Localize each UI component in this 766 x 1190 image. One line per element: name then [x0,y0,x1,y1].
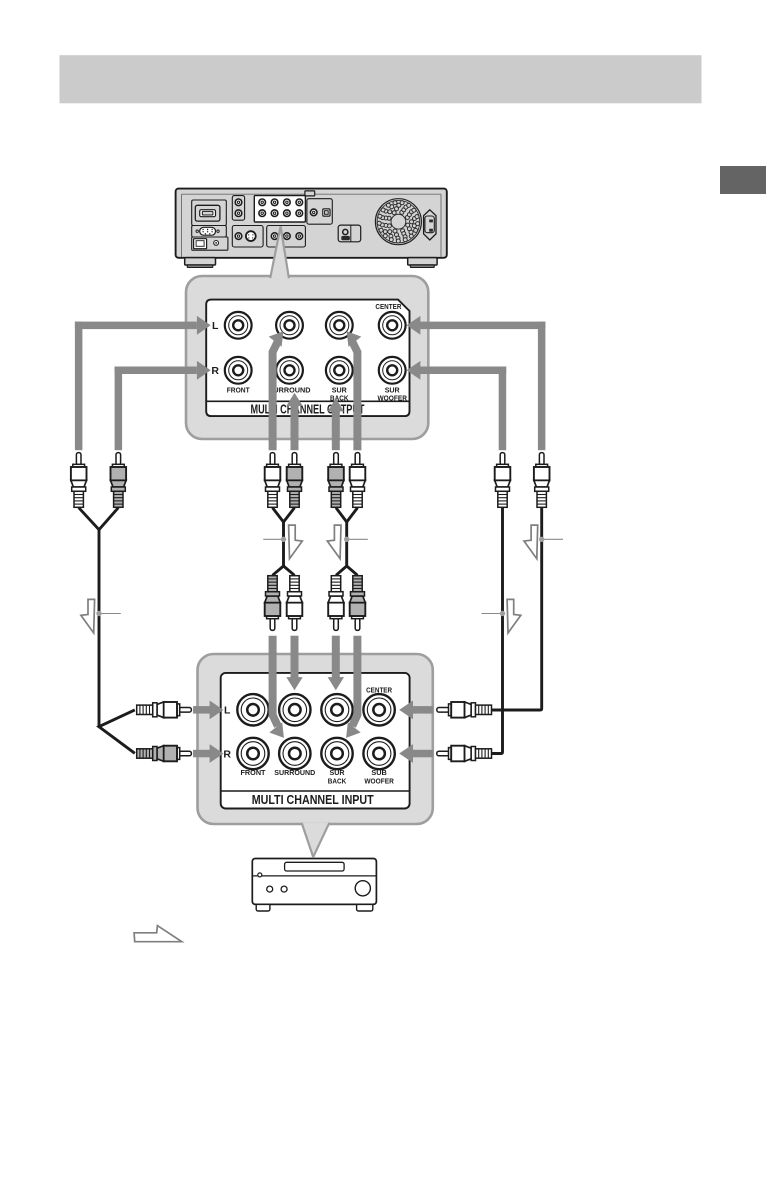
svg-text:FRONT: FRONT [227,386,250,395]
svg-text:MULTI CHANNEL INPUT: MULTI CHANNEL INPUT [252,792,374,807]
svg-text:R: R [211,365,219,377]
svg-text:CENTER: CENTER [375,302,401,311]
svg-text:SURROUND: SURROUND [274,768,315,777]
svg-text:BACK: BACK [328,776,347,785]
svg-text:L: L [224,705,231,717]
svg-text:WOOFER: WOOFER [364,776,394,785]
svg-text:FRONT: FRONT [241,768,266,777]
svg-text:L: L [212,320,219,332]
svg-text:R: R [223,748,231,760]
svg-text:CENTER: CENTER [366,685,392,694]
svg-text:WOOFER: WOOFER [377,394,407,403]
svg-text:MULTI CHANNEL OUTPUT: MULTI CHANNEL OUTPUT [251,401,365,416]
